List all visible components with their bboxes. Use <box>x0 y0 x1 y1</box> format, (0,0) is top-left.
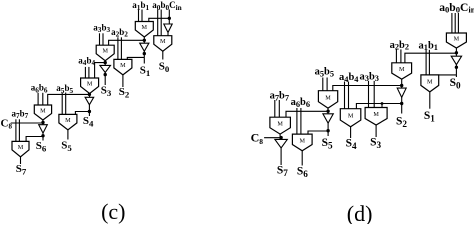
majority gate G3 (d) bit3 <box>365 108 387 126</box>
majority gate G5 (d) bit5 <box>318 91 337 108</box>
svg-text:M: M <box>373 111 379 118</box>
wire Cin input (c) <box>168 10 170 25</box>
wire b2 input (d) <box>400 49 402 62</box>
wire c2n to G2 (c) <box>127 57 144 59</box>
majority gate G6 (c) bit6 <box>34 105 51 120</box>
wire c6 to G7 (d) <box>286 111 328 117</box>
inverter inverter bit1 (c) <box>140 43 149 51</box>
svg-text:M: M <box>348 113 354 120</box>
majority gate G5 (c) bit5 <box>59 114 77 129</box>
majority gate G7 (d) bit7 <box>270 117 291 134</box>
node c8 node (d) <box>279 136 282 139</box>
node c2n (c) <box>143 52 146 55</box>
majority gate G2 (d) bit2 <box>392 63 412 79</box>
wire b1 input (d) <box>428 50 430 75</box>
majority gate G6 (d) bit6 <box>292 134 312 151</box>
svg-text:M: M <box>399 66 405 73</box>
wire G0 out (d) <box>455 48 457 56</box>
svg-text:M: M <box>454 36 460 43</box>
wire a0 input (d) <box>451 13 453 33</box>
wire G1 out (c) <box>143 37 145 43</box>
wire b3 input (c) <box>102 33 104 45</box>
wire c1n stub (d) <box>455 65 457 75</box>
svg-text:M: M <box>277 121 283 128</box>
wire S1 stub (c) <box>143 57 145 63</box>
majority gate G1 (c) bit1 <box>135 22 153 38</box>
wire a3 input (d) <box>368 81 370 108</box>
wire b5 input (c) <box>65 93 67 115</box>
wire c8 to C8 label (d) <box>264 137 281 139</box>
node c4n (c) <box>104 73 107 76</box>
wire c3n to G3 (d) <box>381 104 383 108</box>
svg-text:M: M <box>160 38 166 45</box>
node c2 (c) <box>143 39 146 42</box>
wire b4 input (d) <box>348 82 350 109</box>
node c5n (c) <box>88 110 91 113</box>
wire c3 to G5 (d) <box>333 86 402 91</box>
wire S0 stub (d) <box>455 75 457 77</box>
wire b5 input (d) <box>326 78 328 91</box>
wire b7 input (d) <box>278 100 280 117</box>
svg-text:M: M <box>427 78 433 85</box>
inverter inverter bit4 (c) <box>85 97 94 105</box>
wire a1 input (c) <box>138 10 140 22</box>
node c3n (d) <box>400 102 403 105</box>
node c7n (c) <box>41 134 44 137</box>
majority gate G7 (c) bit7 <box>12 141 29 157</box>
svg-text:M: M <box>325 94 331 101</box>
wire a1 input (d) <box>425 50 427 75</box>
svg-text:M: M <box>120 62 126 69</box>
wire Cin-inv to G0 (c) <box>167 33 169 36</box>
majority gate G4 (d) bit4 <box>340 109 361 127</box>
node c5 (c) <box>88 93 91 96</box>
wire b0 input (d) <box>454 13 456 33</box>
majority gate G3 (c) bit3 <box>96 45 114 61</box>
node c6 (d) <box>326 110 329 113</box>
wire G7 out (d) <box>279 134 281 139</box>
wire c7n to G7 (c) <box>26 137 43 142</box>
majority gate G0 (c) bit0 <box>154 36 172 52</box>
wire a5 input (c) <box>61 93 63 115</box>
wire b0 input (c) <box>160 10 162 36</box>
wire S5 stub (d) <box>327 123 329 136</box>
wire b6 input (c) <box>42 93 44 105</box>
node c7 (c) <box>41 121 44 124</box>
wire a4 input (d) <box>344 82 346 109</box>
svg-text:(d): (d) <box>347 201 373 224</box>
wire S4 line (d) <box>350 127 352 138</box>
wire S6 line (d) <box>301 151 303 166</box>
svg-text:M: M <box>40 108 46 115</box>
wire c3n to G4 (d) <box>356 104 401 109</box>
node c1n (d) <box>455 66 458 69</box>
wire c5n to G5 (c) <box>75 112 89 115</box>
node c3n branch (d) <box>381 102 384 105</box>
inverter Cin inverter (c) <box>164 24 172 33</box>
wire b3 input (d) <box>373 81 375 108</box>
inverter inverter bit7 (d) <box>275 139 287 148</box>
wire Cin input (d) <box>457 13 459 33</box>
wire a7 input (c) <box>15 119 17 141</box>
wire c6n to G6 (d) <box>308 131 328 134</box>
wire c2 to G3 (c) <box>109 40 145 45</box>
wire b4 input (c) <box>88 67 90 78</box>
wire b7 input (c) <box>18 119 20 141</box>
wire c1 to G2 (d) <box>405 53 457 63</box>
wire a2 input (d) <box>395 49 397 62</box>
svg-text:M: M <box>299 138 305 145</box>
node c6n (d) <box>326 129 329 132</box>
majority gate G2 (c) bit2 <box>114 59 132 75</box>
wire G6 out (c) <box>42 120 44 125</box>
inverter inverter bit6 (c) <box>39 125 48 133</box>
inverter inverter bit2 (d) <box>397 88 406 97</box>
wire G3 out (c) <box>104 61 106 66</box>
svg-text:M: M <box>18 144 24 151</box>
svg-text:M: M <box>87 81 93 88</box>
wire a6 input (c) <box>37 93 39 105</box>
majority gate G1 (d) bit1 <box>421 75 439 92</box>
wire a4 input (c) <box>84 67 86 78</box>
majority gate G0 (d) bit0 <box>446 33 466 48</box>
wire c7 to C8 (c) <box>11 122 43 124</box>
wire a5 input (d) <box>322 78 324 91</box>
majority gate G4 (c) bit4 <box>81 78 99 94</box>
wire S3 line (d) <box>375 125 377 137</box>
wire c7n stub (c) <box>42 133 44 140</box>
wire a6 input (d) <box>296 108 298 134</box>
wire S7 line (c) <box>20 157 22 164</box>
node c1 (d) <box>455 51 458 54</box>
inverter inverter bit3 (c) <box>100 65 111 72</box>
inverter inverter bit5 (d) <box>323 114 333 123</box>
wire G2 out (d) <box>401 79 403 88</box>
wire S5 line (c) <box>67 130 69 140</box>
wire S2 stub (d) <box>401 97 403 113</box>
node c4 (c) <box>104 61 107 64</box>
wire c2n stub (c) <box>143 51 145 57</box>
wire S1 line (d) <box>429 92 431 109</box>
wire b2 input (c) <box>120 37 122 59</box>
wire c4 to G4 (c) <box>95 63 106 78</box>
svg-text:M: M <box>65 117 71 124</box>
wire G5 out (d) <box>327 108 329 114</box>
wire c5n stub (c) <box>88 105 90 116</box>
wire G4 out (c) <box>89 94 91 98</box>
wire S2 line (c) <box>122 75 124 87</box>
wire S3 stub (c) <box>104 73 106 86</box>
svg-text:M: M <box>142 24 148 31</box>
wire Cin to G1 (c) <box>149 18 170 21</box>
wire a2 input (c) <box>117 37 119 59</box>
svg-text:(c): (c) <box>101 199 125 224</box>
node c3 (d) <box>400 84 403 87</box>
wire S0 line (c) <box>162 51 164 59</box>
wire c1n to G1 (d) <box>439 74 457 76</box>
wire b6 input (d) <box>300 108 302 134</box>
wire a0 input (c) <box>157 10 159 36</box>
node Cin branch (c) <box>168 17 171 20</box>
wire c5 to G6 (c) <box>48 94 90 105</box>
inverter inverter bit0 (d) <box>451 56 461 64</box>
svg-text:M: M <box>102 48 108 55</box>
wire b1 input (c) <box>141 10 143 22</box>
wire a7 input (d) <box>274 100 276 117</box>
wire a3 input (c) <box>99 33 101 45</box>
wire S7 line (d) <box>280 148 282 165</box>
